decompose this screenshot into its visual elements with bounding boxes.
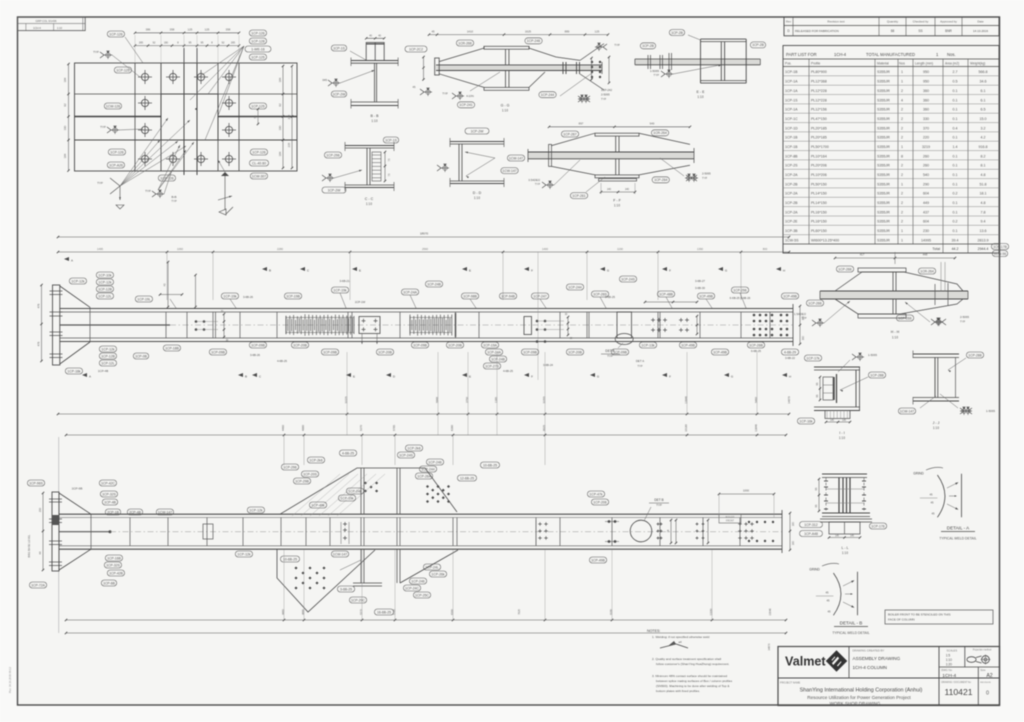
svg-text:1CP-12k: 1CP-12k — [101, 347, 114, 351]
svg-text:3. Minimum 48% contact surface: 3. Minimum 48% contact surface should be… — [652, 674, 727, 678]
svg-text:1CP-16B: 1CP-16B — [107, 556, 121, 560]
svg-text:WORK SHOP DRAWING: WORK SHOP DRAWING — [830, 701, 881, 706]
svg-text:2944.4: 2944.4 — [978, 247, 989, 251]
svg-text:045: 045 — [322, 78, 327, 82]
svg-text:1-WE-16: 1-WE-16 — [251, 47, 264, 51]
section G-G left vdim — [423, 57, 425, 80]
svg-text:0.2: 0.2 — [953, 192, 958, 196]
svg-text:1CP-246: 1CP-246 — [348, 489, 361, 493]
svg-text:TYP: TYP — [654, 73, 660, 77]
svg-text:1CP-42C: 1CP-42C — [101, 481, 115, 485]
svg-text:1CP-264: 1CP-264 — [417, 474, 430, 478]
svg-text:1CP-126: 1CP-126 — [109, 32, 122, 36]
svg-text:1CP-126: 1CP-126 — [252, 150, 265, 154]
svg-text:2: 2 — [901, 117, 903, 121]
svg-text:PL12*156: PL12*156 — [811, 108, 827, 112]
svg-text:1CP-29B: 1CP-29B — [295, 479, 309, 483]
svg-text:1CP-2C2: 1CP-2C2 — [409, 47, 423, 51]
elevation 2 small splice box — [203, 524, 213, 539]
svg-text:1CP-244: 1CP-244 — [541, 93, 554, 97]
svg-text:290: 290 — [923, 182, 929, 186]
svg-text:DET A: DET A — [636, 359, 644, 363]
svg-text:2: 2 — [901, 192, 903, 196]
svg-text:1CP-49B: 1CP-49B — [591, 558, 605, 562]
svg-text:1CP-12k: 1CP-12k — [249, 508, 262, 512]
elevation 2 base plate left end — [52, 492, 59, 571]
svg-text:BRG BASE LEVEL: BRG BASE LEVEL — [27, 534, 31, 557]
svg-text:1CP-18B: 1CP-18B — [165, 346, 179, 350]
svg-text:916.8: 916.8 — [979, 145, 988, 149]
svg-text:bottom plates with fixed profi: bottom plates with fixed profiles. — [656, 689, 700, 693]
svg-text:1CP-2B: 1CP-2B — [752, 43, 765, 47]
svg-text:1CP-6B: 1CP-6B — [72, 487, 83, 491]
elevation 2 mid labels above — [156, 509, 173, 515]
elevation 2 upper gusset plate — [280, 468, 457, 514]
svg-text:1CP-12B: 1CP-12B — [101, 354, 115, 358]
elevation 1 taper gusset — [60, 286, 90, 307]
svg-text:1CP-49B: 1CP-49B — [681, 343, 695, 347]
svg-text:360: 360 — [923, 98, 929, 102]
svg-text:4-10%: 4-10% — [466, 94, 474, 98]
svg-text:1:5: 1:5 — [946, 654, 951, 658]
svg-text:TYP: TYP — [145, 189, 151, 193]
svg-text:604: 604 — [923, 192, 929, 196]
svg-text:92: 92 — [63, 103, 67, 107]
svg-text:8.2: 8.2 — [981, 154, 986, 158]
svg-text:1060: 1060 — [177, 247, 183, 251]
svg-text:1CP-2W: 1CP-2W — [333, 92, 347, 96]
svg-text:2: 2 — [901, 164, 903, 168]
svg-text:1CP-19B: 1CP-19B — [286, 294, 300, 298]
svg-text:3-6B-26: 3-6B-26 — [250, 353, 260, 357]
svg-text:1CP-1W: 1CP-1W — [355, 300, 366, 304]
elevation 2 right end vertical dim — [789, 513, 791, 550]
svg-text:E: E — [469, 375, 471, 379]
base plate top-right label leaders into plate — [199, 46, 244, 77]
svg-text:A: A — [71, 259, 73, 263]
svg-text:S355JR: S355JR — [877, 136, 890, 140]
svg-text:1CP-49k: 1CP-49k — [311, 503, 324, 507]
svg-text:45: 45 — [930, 493, 933, 497]
svg-text:1CP-246: 1CP-246 — [428, 460, 441, 464]
svg-text:PL50*150: PL50*150 — [811, 182, 827, 186]
svg-text:370: 370 — [923, 126, 929, 130]
svg-text:140: 140 — [625, 188, 630, 191]
svg-text:448: 448 — [923, 253, 928, 257]
svg-text:44.2: 44.2 — [952, 247, 959, 251]
lower-left gusset bolt diamond — [294, 566, 297, 569]
svg-text:1CR-264: 1CR-264 — [920, 269, 934, 273]
part list header row — [783, 66, 999, 68]
svg-text:2: 2 — [901, 173, 903, 177]
base plate plan view outline — [75, 63, 298, 171]
svg-text:PL20*206: PL20*206 — [811, 164, 827, 168]
svg-text:2-5065: 2-5065 — [702, 172, 711, 176]
section C-C view — [345, 145, 394, 147]
svg-text:1CP-17k: 1CP-17k — [806, 356, 819, 360]
elevation 1 overall dimension line — [58, 236, 789, 238]
svg-text:8.1: 8.1 — [981, 164, 986, 168]
svg-text:a4: a4 — [678, 640, 682, 644]
svg-text:1:10: 1:10 — [842, 551, 848, 555]
svg-text:1CP-20B: 1CP-20B — [568, 350, 582, 354]
svg-text:S355JR: S355JR — [877, 192, 890, 196]
svg-text:1CW-5S: 1CW-5S — [785, 238, 799, 242]
svg-text:1CP-20S: 1CP-20S — [303, 472, 317, 476]
svg-text:7625: 7625 — [517, 609, 521, 615]
svg-text:13.6: 13.6 — [980, 229, 987, 233]
svg-text:1CP-4B: 1CP-4B — [104, 500, 117, 504]
svg-text:S355JR: S355JR — [877, 173, 890, 177]
svg-text:PL12*228: PL12*228 — [811, 98, 827, 102]
svg-text:3-6B-25: 3-6B-25 — [340, 587, 352, 591]
elevation 1 end plate with detail oval — [617, 312, 632, 338]
svg-text:14995: 14995 — [921, 238, 931, 242]
svg-text:45: 45 — [828, 610, 831, 614]
svg-text:1CP-2B: 1CP-2B — [785, 182, 798, 186]
svg-text:TYP: TYP — [535, 182, 540, 186]
svg-text:3219: 3219 — [922, 145, 930, 149]
svg-text:SS: SS — [918, 29, 922, 33]
elevation 1 right end vertical dim — [799, 306, 801, 344]
svg-text:897: 897 — [579, 122, 584, 126]
elevation 1 leader lines above — [170, 299, 176, 308]
svg-text:1CP-A48: 1CP-A48 — [804, 532, 818, 536]
revision table — [784, 17, 999, 36]
section F-F top haunch — [552, 133, 596, 145]
svg-text:0.1: 0.1 — [953, 210, 958, 214]
elevation 2 labels upper left cluster — [27, 480, 44, 486]
svg-text:45: 45 — [431, 29, 435, 33]
base plate top dim extension lines — [134, 35, 136, 63]
svg-text:1CP-12L: 1CP-12L — [101, 361, 114, 365]
elevation 2 right side bolt plusses — [538, 523, 542, 525]
base plate bottom-center leaders — [158, 145, 180, 190]
svg-text:184: 184 — [278, 151, 282, 156]
svg-text:PL20*185: PL20*185 — [811, 136, 827, 140]
svg-text:1CH-4 COLUMN: 1CH-4 COLUMN — [853, 665, 887, 670]
elevation 2 labels lower left cluster — [105, 555, 122, 561]
base plate right dimension chains — [282, 66, 284, 168]
elevation 1 right top labels at border — [991, 244, 1008, 250]
svg-text:225: 225 — [287, 142, 291, 147]
svg-text:1CP-2B: 1CP-2B — [671, 31, 684, 35]
svg-text:1:20: 1:20 — [946, 663, 952, 667]
elevation 1 splice plate at x524 — [524, 317, 532, 335]
svg-text:1:10: 1:10 — [933, 426, 939, 430]
svg-text:4460: 4460 — [281, 425, 285, 431]
svg-text:1410: 1410 — [467, 29, 474, 33]
svg-text:1CP-247: 1CP-247 — [533, 294, 546, 298]
svg-text:1CP-176: 1CP-176 — [871, 524, 884, 528]
svg-text:H - H: H - H — [891, 330, 900, 334]
svg-text:1: 1 — [901, 229, 903, 233]
svg-text:1CH-4: 1CH-4 — [942, 673, 956, 679]
svg-text:4.2: 4.2 — [981, 136, 986, 140]
elevation 1 small dims near left end — [167, 262, 169, 307]
svg-text:F - F: F - F — [613, 198, 621, 202]
svg-text:1000: 1000 — [743, 489, 750, 493]
svg-text:TYP: TYP — [171, 199, 177, 203]
svg-text:18970: 18970 — [420, 232, 429, 236]
svg-text:1CW-147: 1CW-147 — [900, 409, 914, 413]
section H-H dimension — [835, 257, 955, 259]
elevation 2 dim 1000 above right end — [719, 493, 774, 495]
svg-text:3.2: 3.2 — [981, 126, 986, 130]
svg-text:1CP-296: 1CP-296 — [733, 288, 746, 292]
base plate leaders from bottom-left vertex — [120, 140, 160, 186]
svg-text:PL16*150: PL16*150 — [811, 220, 827, 224]
elevation 2 stiffener verticals — [129, 518, 131, 546]
elevation 2 flanges — [59, 513, 782, 515]
svg-text:13946: 13946 — [684, 396, 688, 404]
section E-E column box section — [700, 39, 702, 83]
svg-text:1CP-1A: 1CP-1A — [785, 108, 798, 112]
svg-text:E - E: E - E — [697, 90, 706, 94]
svg-text:1CP-206: 1CP-206 — [593, 500, 606, 504]
elevation 1 bolt clusters — [195, 320, 198, 323]
elevation 1 section cut markers below — [82, 373, 87, 377]
svg-text:Approved by: Approved by — [940, 20, 957, 24]
svg-text:1CP-32S: 1CP-32S — [102, 492, 116, 496]
svg-text:CL-40.60: CL-40.60 — [252, 161, 266, 165]
svg-text:1:10: 1:10 — [892, 336, 898, 340]
svg-text:1CP-125: 1CP-125 — [251, 55, 264, 59]
svg-text:TYP: TYP — [100, 125, 106, 129]
svg-text:1CP-2W: 1CP-2W — [471, 129, 485, 133]
svg-text:10-6B-25: 10-6B-25 — [283, 557, 297, 561]
elevation 2 lower mid details — [360, 549, 362, 583]
svg-text:TYPICAL WELD DETAIL: TYPICAL WELD DETAIL — [939, 537, 976, 541]
svg-text:1CP-19A: 1CP-19A — [483, 343, 497, 347]
svg-text:(SN500). Machining to be done: (SN500). Machining to be done after weld… — [656, 684, 730, 688]
svg-text:PL10*164: PL10*164 — [811, 154, 827, 158]
section L-L labels — [800, 522, 823, 528]
svg-text:184: 184 — [63, 77, 67, 82]
svg-text:6390: 6390 — [450, 425, 454, 431]
section F-F bottom haunch — [552, 166, 596, 175]
svg-text:125: 125 — [205, 28, 210, 32]
svg-text:1CP-4B: 1CP-4B — [98, 369, 109, 373]
base plate top dimension line 2 — [135, 45, 239, 47]
svg-text:2: 2 — [901, 89, 903, 93]
section G-G right end bracket — [580, 44, 604, 61]
svg-text:1CP-1S: 1CP-1S — [785, 98, 798, 102]
base plate leader labels bottom — [158, 175, 175, 181]
svg-text:1CP-288: 1CP-288 — [968, 353, 981, 357]
svg-text:190: 190 — [164, 41, 169, 44]
svg-text:L - L: L - L — [841, 546, 848, 550]
svg-text:125: 125 — [595, 29, 600, 33]
svg-text:2. Quality and surface treatme: 2. Quality and surface treatment specifi… — [652, 657, 721, 661]
svg-text:0.1: 0.1 — [953, 108, 958, 112]
svg-text:437: 437 — [923, 210, 929, 214]
elevation 1 second dimension line — [58, 251, 789, 253]
svg-text:1.5ADE/2: 1.5ADE/2 — [794, 312, 806, 316]
svg-text:1CP-2k6: 1CP-2k6 — [407, 446, 420, 450]
base plate left dimension chain — [68, 64, 70, 171]
svg-text:1CP-27S: 1CP-27S — [485, 364, 499, 368]
svg-text:S355JR: S355JR — [877, 145, 890, 149]
svg-text:476: 476 — [37, 341, 41, 346]
svg-text:0.1: 0.1 — [953, 98, 958, 102]
svg-text:1:10: 1:10 — [57, 26, 63, 30]
svg-text:3-6B-21·: 3-6B-21· — [340, 279, 351, 283]
svg-text:15.0: 15.0 — [980, 117, 987, 121]
svg-text:DETAIL - B: DETAIL - B — [840, 621, 863, 626]
svg-text:6-6B-25 6-6B-26: 6-6B-25 6-6B-26 — [730, 296, 751, 300]
elevation 1 labels below — [99, 346, 116, 352]
svg-text:1CP-A26: 1CP-A26 — [109, 163, 123, 167]
svg-text:1390: 1390 — [697, 247, 703, 251]
svg-text:S355JR: S355JR — [877, 220, 890, 224]
svg-text:4880: 4880 — [301, 425, 305, 431]
svg-text:F: F — [669, 375, 671, 379]
svg-text:S355JR: S355JR — [877, 154, 890, 158]
svg-text:1CP-17B: 1CP-17B — [993, 245, 1007, 249]
svg-text:TYP: TYP — [442, 92, 448, 96]
svg-text:1CP-19k: 1CP-19k — [340, 496, 353, 500]
svg-text:Total: Total — [932, 247, 940, 251]
svg-text:9180: 9180 — [609, 609, 613, 615]
svg-text:225: 225 — [287, 114, 291, 119]
svg-text:1CP-24B: 1CP-24B — [491, 357, 505, 361]
svg-text:S355JR: S355JR — [877, 210, 890, 214]
svg-text:2280: 2280 — [277, 247, 283, 251]
section F-F dimension — [549, 126, 690, 128]
svg-text:GRP COL 3/1436: GRP COL 3/1436 — [36, 19, 57, 23]
svg-text:190: 190 — [63, 125, 67, 130]
svg-text:S355JR: S355JR — [877, 229, 890, 233]
svg-text:E: E — [353, 375, 355, 379]
svg-text:1CP-48B: 1CP-48B — [659, 292, 673, 296]
svg-text:3-6B-27: 3-6B-27 — [695, 279, 705, 283]
svg-text:S355JR: S355JR — [877, 70, 890, 74]
svg-text:ShanYing International Holding: ShanYing International Holding Corporati… — [800, 688, 923, 694]
svg-text:13846: 13846 — [754, 424, 758, 432]
svg-text:1CP-296: 1CP-296 — [283, 465, 296, 469]
svg-text:360: 360 — [923, 108, 929, 112]
svg-text:1:10: 1:10 — [366, 202, 372, 206]
section G-G view dimension — [429, 34, 608, 36]
svg-text:Pos.: Pos. — [785, 62, 792, 66]
svg-text:3-6B-30: 3-6B-30 — [695, 286, 705, 290]
svg-text:TYP: TYP — [601, 97, 606, 101]
svg-text:6.1: 6.1 — [981, 89, 986, 93]
svg-text:2CP-4B: 2CP-4B — [129, 510, 142, 514]
svg-text:1CP-125: 1CP-125 — [116, 68, 129, 72]
section D-D view — [450, 141, 504, 143]
svg-text:BNR: BNR — [945, 29, 952, 33]
svg-text:6-6B-25: 6-6B-25 — [751, 349, 761, 353]
svg-text:F: F — [669, 269, 671, 273]
svg-text:1CP-242: 1CP-242 — [601, 88, 612, 92]
svg-text:1CP-96S: 1CP-96S — [29, 481, 43, 485]
svg-text:1-5065: 1-5065 — [986, 409, 995, 413]
svg-text:A2: A2 — [986, 673, 992, 679]
svg-text:1CW-147: 1CW-147 — [158, 510, 172, 514]
svg-text:1CP-20B: 1CP-20B — [293, 343, 307, 347]
svg-text:100: 100 — [792, 540, 795, 545]
svg-text:1CP-20B: 1CP-20B — [378, 350, 392, 354]
svg-text:PL14*150: PL14*150 — [811, 192, 827, 196]
elevation 2 lower-left gusset plate — [277, 549, 375, 612]
section H-H top haunch — [835, 272, 963, 291]
svg-text:1CP-1A: 1CP-1A — [785, 89, 798, 93]
svg-text:2: 2 — [901, 201, 903, 205]
svg-text:1CP-246: 1CP-246 — [527, 39, 540, 43]
svg-text:0.1: 0.1 — [953, 201, 958, 205]
svg-text:GRIND: GRIND — [913, 472, 924, 476]
base plate leader labels top — [107, 31, 124, 37]
svg-text:1CP-12k: 1CP-12k — [98, 280, 111, 284]
section H-H beam bar — [820, 291, 968, 299]
svg-text:1CW-147: 1CW-147 — [502, 169, 516, 173]
svg-text:F: F — [531, 269, 533, 273]
section I-I view — [814, 366, 860, 368]
svg-text:2: 2 — [901, 126, 903, 130]
svg-text:1CP-24S: 1CP-24S — [621, 277, 635, 281]
svg-text:1CP-12k: 1CP-12k — [237, 552, 250, 556]
svg-text:E: E — [359, 269, 361, 273]
svg-text:1CP-09B: 1CP-09B — [523, 350, 537, 354]
svg-text:1CP-288: 1CP-288 — [870, 373, 883, 377]
svg-text:REVISION: REVISION — [980, 682, 991, 684]
svg-text:Valmet: Valmet — [785, 655, 826, 669]
svg-text:9.4: 9.4 — [981, 220, 986, 224]
svg-text:Date: Date — [977, 20, 984, 24]
svg-text:1CP-24A: 1CP-24A — [487, 350, 501, 354]
elevation 1 flanges — [60, 308, 793, 310]
svg-text:1CP-24B: 1CP-24B — [427, 282, 441, 286]
svg-text:1:10: 1:10 — [614, 203, 620, 207]
svg-text:D - D: D - D — [473, 191, 482, 195]
section B-B labels — [331, 45, 346, 51]
svg-text:DRAWING CREATED BY: DRAWING CREATED BY — [853, 649, 885, 653]
svg-text:3-6B-22: 3-6B-22 — [785, 356, 795, 360]
svg-text:Nos: Nos — [899, 62, 905, 66]
svg-text:1CP-19k: 1CP-19k — [223, 294, 236, 298]
section E-E labels — [669, 30, 684, 36]
svg-text:0.5: 0.5 — [953, 80, 958, 84]
svg-text:1CP-1B: 1CP-1B — [785, 70, 798, 74]
svg-text:S355JR: S355JR — [877, 89, 890, 93]
svg-text:2: 2 — [901, 136, 903, 140]
svg-text:1CW-147: 1CW-147 — [509, 156, 523, 160]
svg-text:1CP-246: 1CP-246 — [411, 579, 424, 583]
svg-text:0.1: 0.1 — [953, 136, 958, 140]
boiler front note box — [885, 610, 993, 624]
base plate horizontal lines — [75, 93, 298, 95]
section J-J view — [913, 353, 959, 355]
svg-text:4: 4 — [901, 98, 903, 102]
svg-text:1625: 1625 — [525, 29, 532, 33]
svg-text:PL47*150: PL47*150 — [811, 117, 827, 121]
svg-text:B: B — [245, 375, 247, 379]
svg-text:1CP-128: 1CP-128 — [251, 39, 264, 43]
svg-text:Resource Utilization for Power: Resource Utilization for Power Generatio… — [807, 695, 911, 700]
svg-text:follow customer's (ShanYing Hu: follow customer's (ShanYing HuaZhong) re… — [656, 662, 730, 666]
base plate anchor bolts — [141, 73, 148, 80]
section L-L splice view — [822, 473, 867, 475]
svg-text:DET B: DET B — [654, 498, 663, 502]
svg-text:TYP: TYP — [801, 316, 806, 320]
svg-text:PL14*150: PL14*150 — [811, 201, 827, 205]
elevation 2 taper gusset — [59, 493, 91, 514]
svg-text:1CP-2A: 1CP-2A — [785, 210, 798, 214]
svg-text:12-6B-25: 12-6B-25 — [460, 476, 474, 480]
section G-G top haunch — [439, 46, 484, 61]
